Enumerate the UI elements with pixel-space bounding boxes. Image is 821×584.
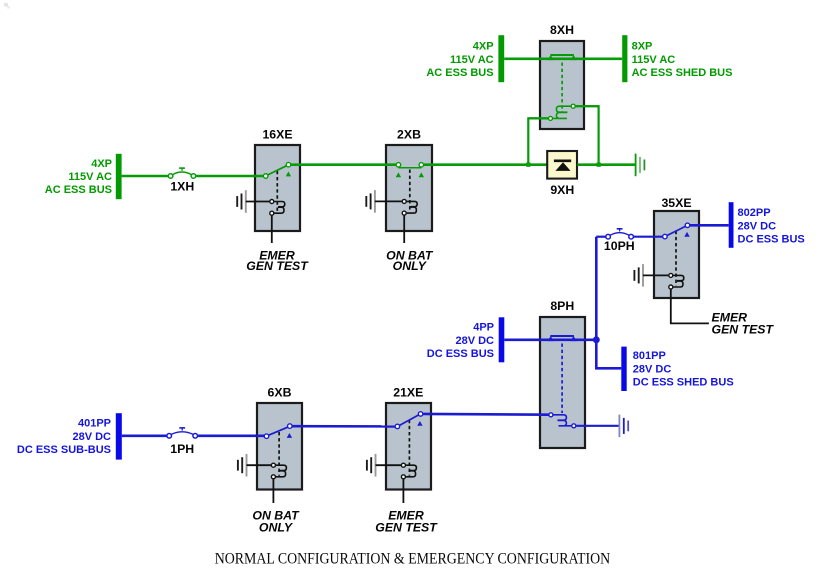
label EMER GEN TEST (21XE) xyxy=(375,508,438,534)
svg-text:115V AC: 115V AC xyxy=(68,171,112,183)
label 401PP 28V DC DC ESS SUB-BUS xyxy=(17,418,111,456)
svg-text:401PP: 401PP xyxy=(78,418,111,430)
svg-text:4PP: 4PP xyxy=(473,322,494,334)
relay 6XB box xyxy=(257,403,302,490)
wire junction up to 8XH coil left contact xyxy=(528,118,548,164)
svg-text:GEN TEST: GEN TEST xyxy=(375,521,438,535)
ground (21XE coil) xyxy=(367,454,376,477)
relay 21XE box xyxy=(386,403,431,490)
label 8XP 115V AC AC ESS SHED BUS xyxy=(632,41,733,79)
relay 2XB dashed actuator link xyxy=(409,170,411,212)
label 4XP 115V AC AC ESS BUS (8XH left) xyxy=(426,41,493,79)
svg-text:35XE: 35XE xyxy=(661,196,691,210)
label ON BAT ONLY (6XB) xyxy=(252,508,300,534)
relay 35XE box xyxy=(654,211,699,298)
wire ground to 16XE coil xyxy=(246,201,270,203)
wire 1PH to 6XB xyxy=(198,434,265,437)
svg-text:DC ESS SHED BUS: DC ESS SHED BUS xyxy=(633,377,734,389)
relay 8XH closed contact bridge xyxy=(548,55,577,60)
wire 4XP bar through 8XH to 8XP bar xyxy=(504,57,622,60)
relay 2XB coil xyxy=(402,199,417,215)
wire 2XB to 9XH (main AC line) xyxy=(424,163,548,166)
svg-text:DC ESS SUB-BUS: DC ESS SUB-BUS xyxy=(17,444,111,456)
wire 6XB to 21XE xyxy=(292,425,395,428)
relay 2XB triangle right xyxy=(419,172,424,177)
wire 21XE to 8PH xyxy=(423,413,549,416)
label 6XB xyxy=(268,385,292,399)
bus bar 4XP AC ESS BUS (left) xyxy=(116,154,122,199)
ground (AC line) xyxy=(636,154,645,177)
relay 8XH box xyxy=(540,41,584,129)
relay 8PH coil xyxy=(549,413,576,428)
wire junction up to 10PH and down to 801PP xyxy=(596,237,621,369)
relay 8PH closed contact bridge xyxy=(548,336,577,341)
svg-text:1XH: 1XH xyxy=(170,179,194,193)
bus bar 802PP DC ESS BUS xyxy=(729,202,734,248)
svg-text:16XE: 16XE xyxy=(262,128,292,142)
svg-text:2XB: 2XB xyxy=(397,128,421,142)
wire 21XE coil to EMER GEN TEST xyxy=(402,479,404,503)
relay 8PH dashed actuator link xyxy=(561,344,563,414)
svg-text:8PH: 8PH xyxy=(550,299,574,313)
relay 35XE switch blade xyxy=(667,226,685,235)
wire ground to 21XE coil xyxy=(376,464,402,466)
label 10PH xyxy=(604,239,635,253)
breaker 1XH xyxy=(168,168,195,178)
svg-text:28V DC: 28V DC xyxy=(455,335,494,347)
breaker 1PH xyxy=(167,428,198,438)
svg-text:9XH: 9XH xyxy=(550,183,574,197)
label 16XE xyxy=(262,128,292,142)
bus bar 401PP DC ESS SUB-BUS xyxy=(116,413,122,459)
svg-text:GEN TEST: GEN TEST xyxy=(712,323,775,337)
relay 16XE output contact xyxy=(286,162,291,167)
label 2XB xyxy=(397,128,421,142)
svg-text:28V DC: 28V DC xyxy=(738,220,777,232)
label 802PP 28V DC DC ESS BUS xyxy=(738,207,805,245)
wire junction to 10PH xyxy=(596,236,606,238)
label 1XH xyxy=(170,179,194,193)
relay 6XB input contact xyxy=(264,434,269,439)
wire 4XP bus to 1XH xyxy=(122,175,169,178)
wire ground to 35XE coil xyxy=(643,274,668,276)
label 8XH xyxy=(550,23,574,37)
label EMER GEN TEST (35XE) xyxy=(712,310,775,336)
relay 35XE dashed actuator link xyxy=(675,231,677,286)
bus bar 4PP DC ESS BUS xyxy=(499,317,505,362)
ground (35XE coil) xyxy=(634,264,643,287)
relay 16XE box xyxy=(255,145,300,231)
label 8PH xyxy=(550,299,574,313)
svg-text:10PH: 10PH xyxy=(604,239,635,253)
svg-text:801PP: 801PP xyxy=(633,350,666,362)
wire 401PP bus to 1PH xyxy=(122,434,167,437)
relay 21XE coil xyxy=(401,463,416,479)
label 4XP 115V AC AC ESS BUS (left bus) xyxy=(45,158,112,196)
caption NORMAL CONFIGURATION & EMERGENCY CONFIGURATION xyxy=(215,550,611,567)
relay 21XE dashed actuator link xyxy=(408,420,410,476)
relay 21XE triangle xyxy=(417,421,422,426)
svg-text:21XE: 21XE xyxy=(393,385,423,399)
svg-text:6XB: 6XB xyxy=(268,385,292,399)
svg-text:GEN TEST: GEN TEST xyxy=(246,259,309,273)
svg-text:1PH: 1PH xyxy=(170,442,194,456)
svg-text:ONLY: ONLY xyxy=(393,259,428,273)
svg-text:28V DC: 28V DC xyxy=(633,363,672,375)
relay 35XE output contact xyxy=(685,223,690,228)
label 801PP 28V DC DC ESS SHED BUS xyxy=(633,350,734,388)
node junction 8PH/10PH/801PP xyxy=(593,336,600,343)
label 35XE xyxy=(661,196,691,210)
relay 2XB output contact xyxy=(419,163,424,168)
wire ground to 6XB coil xyxy=(247,464,272,466)
relay 16XE input contact xyxy=(263,174,268,179)
relay 21XE output contact xyxy=(418,412,423,417)
device 9XH symbol bar xyxy=(554,159,571,162)
wire 2XB coil to ON BAT ONLY xyxy=(403,215,405,243)
svg-text:802PP: 802PP xyxy=(738,207,771,219)
bus bar 4XP (8XH left) xyxy=(498,35,504,82)
relay 6XB output contact xyxy=(288,424,293,429)
svg-text:ONLY: ONLY xyxy=(259,521,294,535)
label 1PH xyxy=(170,442,194,456)
wire 8XH coil right contact out xyxy=(575,105,598,107)
wire 6XB coil to ON BAT ONLY xyxy=(272,479,274,503)
node junction to 8XH coil right xyxy=(597,163,601,167)
relay 8XH coil xyxy=(549,104,576,120)
svg-text:DC ESS BUS: DC ESS BUS xyxy=(427,348,494,360)
wire 8PH coil to ground xyxy=(576,425,619,427)
svg-text:8XH: 8XH xyxy=(550,23,574,37)
relay 21XE switch blade xyxy=(400,415,419,425)
bus bar 801PP DC ESS SHED BUS xyxy=(621,347,626,391)
wire ground to 2XB coil xyxy=(375,200,402,202)
wire 35XE coil to EMER GEN TEST xyxy=(671,289,709,323)
ground (2XB coil) xyxy=(366,190,375,213)
relay 16XE coil xyxy=(270,200,285,216)
relay 6XB triangle xyxy=(287,433,292,438)
relay 16XE dashed actuator link xyxy=(276,171,278,212)
svg-text:AC ESS BUS: AC ESS BUS xyxy=(45,184,112,196)
device 9XH symbol triangle xyxy=(555,162,570,171)
ground (16XE coil) xyxy=(237,190,246,213)
breaker 10PH xyxy=(606,229,634,239)
ground (8PH coil return) xyxy=(619,415,628,438)
wire 1XH to 16XE xyxy=(196,175,263,178)
wire 16XE to 2XB xyxy=(291,163,396,166)
relay 6XB coil xyxy=(271,463,286,479)
svg-text:115V AC: 115V AC xyxy=(450,54,494,66)
svg-text:28V DC: 28V DC xyxy=(72,431,111,443)
label ON BAT ONLY (2XB) xyxy=(386,249,434,274)
relay 6XB dashed actuator link xyxy=(278,432,280,476)
svg-text:AC ESS BUS: AC ESS BUS xyxy=(426,67,493,79)
ground (6XB coil) xyxy=(238,454,247,477)
label 4PP 28V DC DC ESS BUS xyxy=(427,322,494,360)
wire 9XH to ground xyxy=(577,163,635,166)
wire 10PH to 35XE xyxy=(633,236,662,238)
relay 6XB switch blade xyxy=(269,427,288,435)
relay 2XB box xyxy=(386,145,432,231)
svg-text:115V AC: 115V AC xyxy=(632,54,676,66)
wire junction up to 8XH coil right contact xyxy=(575,106,598,165)
relay 16XE normal-position triangle xyxy=(286,172,291,177)
relay 2XB closed blade xyxy=(398,167,421,169)
relay 35XE coil xyxy=(669,273,684,289)
relay 8PH box xyxy=(540,317,585,448)
relay 35XE input contact xyxy=(663,234,668,239)
label 21XE xyxy=(393,385,423,399)
node junction to 8XH coil left xyxy=(526,163,530,167)
wire 16XE coil to EMER GEN TEST xyxy=(271,216,273,244)
svg-text:4XP: 4XP xyxy=(91,158,112,170)
device 9XH box xyxy=(547,151,577,179)
svg-text:NORMAL CONFIGURATION & EMERGEN: NORMAL CONFIGURATION & EMERGENCY CONFIGU… xyxy=(215,550,611,567)
wire 8XH coil left contact out xyxy=(528,117,548,119)
relay 2XB triangle left xyxy=(396,172,401,177)
relay 8XH dashed actuator link xyxy=(561,63,563,113)
wire 35XE to 802PP bus xyxy=(690,224,729,227)
bus bar 8XP AC ESS SHED BUS xyxy=(622,35,627,82)
relay 2XB input contact xyxy=(396,163,401,168)
relay 35XE triangle xyxy=(684,232,689,237)
svg-text:8XP: 8XP xyxy=(632,41,653,53)
relay 16XE switch blade xyxy=(268,166,287,175)
svg-text:AC ESS SHED BUS: AC ESS SHED BUS xyxy=(632,67,733,79)
svg-text:4XP: 4XP xyxy=(473,41,494,53)
svg-text:DC ESS BUS: DC ESS BUS xyxy=(738,234,805,246)
relay 21XE input contact xyxy=(395,424,400,429)
wire 4PP bar through 8PH to junction xyxy=(504,338,596,341)
label EMER GEN TEST (16XE) xyxy=(246,249,309,274)
label 9XH xyxy=(550,183,574,197)
